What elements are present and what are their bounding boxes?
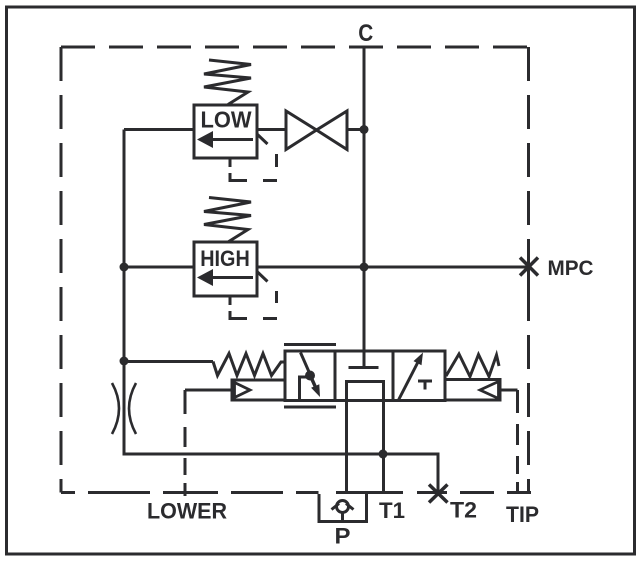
wire: C vertical line xyxy=(363,47,366,352)
junction dot at C/shutoff xyxy=(360,125,369,134)
proportional bars xyxy=(284,345,336,408)
wire: spring wire to valve xyxy=(124,360,213,363)
junction dot T1 riser / bottom run xyxy=(379,450,388,459)
right position symbol xyxy=(399,363,418,400)
arrow inside HIGH xyxy=(211,276,253,279)
check valve at P xyxy=(319,494,367,522)
port T2 (plugged, X) xyxy=(429,485,448,503)
svg-text:TIP: TIP xyxy=(506,502,539,527)
svg-text:T1: T1 xyxy=(379,498,405,523)
spring above LOW xyxy=(204,60,251,105)
svg-text:T2: T2 xyxy=(450,498,477,523)
left position symbol xyxy=(300,377,309,400)
spring above HIGH xyxy=(204,198,251,243)
svg-text:HIGH: HIGH xyxy=(200,246,250,271)
center bracket / P & T1 risers xyxy=(347,382,384,495)
relief valve LOW body xyxy=(194,105,257,158)
relief valve HIGH body xyxy=(194,242,257,296)
svg-text:P: P xyxy=(335,524,351,549)
orifice on left rail xyxy=(112,383,119,434)
svg-text:C: C xyxy=(358,20,373,47)
wire: left vertical rail down to bottom run and T2 xyxy=(124,130,438,493)
shutoff valve (bowtie) xyxy=(257,128,286,131)
junction dot C line / HIGH output xyxy=(360,263,369,272)
pilot line HIGH (dashed) xyxy=(230,291,277,319)
center position symbol xyxy=(363,351,366,367)
wire: HIGH output to MPC xyxy=(257,266,529,269)
pilot actuator left box xyxy=(232,380,285,400)
wire: LOW input from left rail xyxy=(124,128,194,131)
enclosure boundary (dashed) bottom edge xyxy=(61,491,531,494)
junction dot left rail / HIGH input xyxy=(120,263,129,272)
pilot actuator right box xyxy=(445,380,500,401)
adjustment tick HIGH xyxy=(258,272,268,282)
directional valve body xyxy=(285,351,445,401)
port MPC (plugged, X) xyxy=(520,258,538,276)
junction dot left rail / spring wire xyxy=(120,357,129,366)
enclosure boundary (dashed) top edge xyxy=(61,46,529,49)
enclosure boundary (dashed) left edge xyxy=(60,47,63,493)
spring left of directional valve xyxy=(213,354,285,376)
svg-text:LOW: LOW xyxy=(201,107,252,133)
svg-text:MPC: MPC xyxy=(548,256,594,280)
enclosure boundary (dashed) right edge xyxy=(527,47,530,493)
svg-text:LOWER: LOWER xyxy=(147,499,227,524)
pilot line LOW (dashed) xyxy=(230,154,277,181)
adjustment tick LOW xyxy=(258,135,268,145)
arrow inside LOW xyxy=(211,138,253,141)
pilot wire to TIP xyxy=(500,389,518,392)
spring right of directional valve xyxy=(446,354,499,377)
pilot wire to LOWER xyxy=(185,389,232,392)
wire: HIGH input xyxy=(124,266,194,269)
